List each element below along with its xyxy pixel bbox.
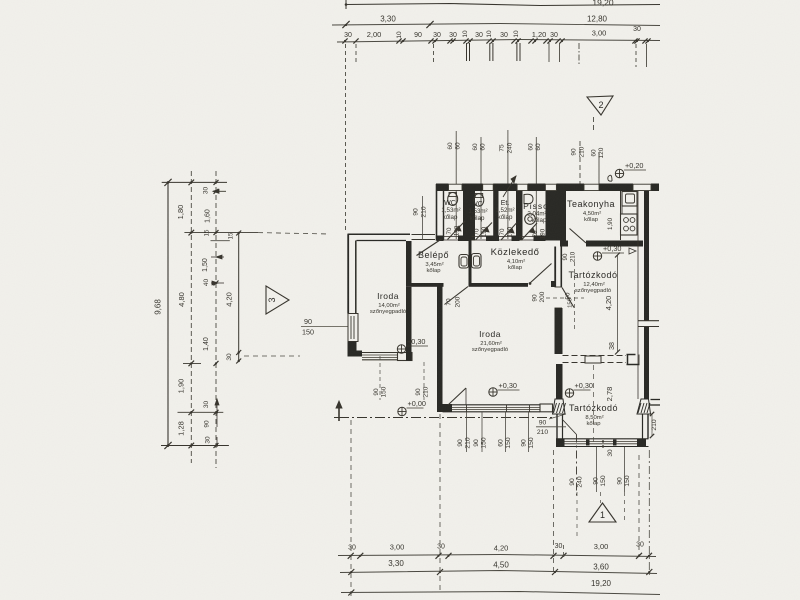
tick (551, 553, 557, 559)
east wall inner face line (637, 191, 639, 399)
elevation marker +0,30 Iroda-left (397, 345, 405, 353)
south-east wall stub (651, 399, 661, 401)
bay left hatched corner (553, 399, 566, 414)
section line 1 horizontal dash-dot (334, 417, 339, 419)
dashed center line T-lower (593, 365, 595, 443)
left dim rail D (238, 233, 240, 361)
bottom rail 2 (340, 571, 657, 574)
tick (646, 569, 652, 575)
door Kozlekedo leaf (530, 264, 552, 284)
wall Et-Pisso (516, 191, 523, 241)
dim 4,20 Tartozkodo vertical (617, 255, 619, 352)
tick (426, 21, 433, 28)
section line 2 upper dash-dot (578, 43, 580, 65)
left block dashes to plan bottom (244, 355, 300, 357)
corridor south wall segment B (469, 283, 529, 287)
tick (189, 410, 195, 416)
tick (214, 410, 219, 415)
bottom tick rail (338, 555, 656, 557)
window center line (480, 137, 482, 239)
door Belepo to big Iroda leaf (445, 287, 469, 305)
tick (214, 281, 219, 286)
tick (450, 38, 455, 43)
kitchen stove (621, 214, 638, 235)
big Iroda south band ticks (466, 405, 468, 412)
window center line (455, 131, 457, 239)
WC1 toilet (448, 193, 458, 206)
tick (463, 38, 468, 43)
tick (646, 553, 652, 559)
entrance door center line (422, 196, 424, 240)
tick (189, 361, 195, 367)
opening band between Tartozkodo rooms dashed (563, 355, 627, 357)
big Iroda west wall (437, 283, 443, 412)
tick (342, 38, 347, 43)
window center line (535, 137, 537, 239)
tick (632, 38, 637, 43)
entrance threshold lines (412, 234, 436, 236)
window center lines below bay (596, 447, 598, 492)
Iroda-left south wall piece (348, 351, 363, 357)
tick (528, 38, 533, 43)
extension double line b (489, 43, 491, 61)
elevation marker +0,20 Teakonyha (615, 169, 623, 177)
corridor south wall segment A (406, 283, 444, 287)
Iroda-left east wall (406, 287, 412, 361)
section line 2 lower dashes (593, 117, 595, 133)
Iroda-left roller box (398, 353, 413, 361)
elevation marker +0,00 outside (398, 407, 406, 415)
washbasin Belepo (459, 255, 469, 269)
bay right wall (642, 414, 644, 439)
kitchen sink unit (622, 192, 637, 207)
bottom rail 19,20 (341, 592, 660, 595)
tick (486, 38, 491, 43)
bottom extension dashed lines (350, 420, 352, 598)
extension double line c (516, 43, 518, 61)
opening band center rect (585, 356, 601, 363)
bay window band (556, 438, 649, 440)
tick (559, 38, 564, 43)
tick (189, 230, 195, 236)
left block dashes to plan top (258, 233, 330, 234)
tick (189, 180, 195, 186)
big Iroda roller box (540, 404, 553, 412)
tick (214, 443, 219, 448)
dim leader to bay wall (549, 414, 566, 419)
wall WC2-Et (493, 191, 498, 241)
tick (515, 38, 520, 43)
tick (428, 38, 433, 43)
big Iroda south corner block (441, 404, 452, 412)
big Iroda balcony door swing (448, 388, 466, 405)
Iroda-left west window (348, 314, 358, 342)
left block arrow verticals (216, 399, 218, 412)
WC door thresholds (444, 236, 459, 238)
east wall lower (644, 327, 649, 399)
tick (642, 38, 647, 43)
extension line dashed left (345, 44, 347, 232)
left block extension y232 (184, 232, 258, 234)
extension line dashed entrance (433, 44, 435, 62)
dim 1,98 marks near stub (615, 350, 620, 355)
left block extension top (162, 181, 227, 183)
left block extension y412 (178, 411, 224, 413)
west wall of WC1 (436, 184, 438, 241)
Belepo-Kozlekedo wall (469, 241, 472, 284)
north wall band (436, 184, 449, 192)
tick (447, 38, 452, 43)
tick (353, 38, 358, 43)
Iroda-left top wall inner (357, 240, 407, 242)
tick (214, 361, 219, 366)
elevation marker +0,30 Tartozkodo upper (593, 252, 601, 260)
tick (552, 569, 558, 575)
tick (357, 553, 363, 559)
left dim rail overall (167, 182, 169, 447)
section line 1 start mark (338, 403, 340, 421)
tick (214, 189, 219, 194)
Belepo west wall (406, 241, 412, 287)
tick (532, 38, 537, 43)
left block extension y363 (183, 362, 201, 364)
bay window mullions (586, 440, 590, 446)
dim rail 3,30 / 12,80 (332, 24, 660, 26)
left block extension y240 short (211, 240, 230, 242)
Iroda-left south window band (362, 352, 398, 354)
washbasin Kozlekedo (472, 254, 482, 269)
Pisso floor drain circle (525, 214, 536, 225)
entrance door leaf (417, 239, 442, 256)
left block extension bottom (161, 445, 229, 447)
left block arrows 1,50-40 (211, 256, 224, 258)
tick (436, 553, 442, 559)
window center dashed in Iroda-left (379, 356, 381, 400)
window center lines below big Iroda (466, 412, 468, 452)
door Tartozkodo leaf (562, 288, 574, 308)
extension line d (548, 43, 550, 62)
door Tartozkodo center dashes (574, 262, 576, 330)
Tartozkodo west wall lower poche (555, 308, 563, 354)
tick (561, 553, 567, 559)
bay right hatched corner (637, 399, 651, 414)
kitchen middle shelf (622, 206, 637, 214)
tick (636, 553, 642, 559)
tick (236, 231, 241, 236)
tick (467, 38, 472, 43)
WC2 toilet (474, 194, 484, 207)
Iroda-left west wall upper (347, 234, 349, 313)
left block arrow 30 top (213, 190, 226, 192)
elevation marker +0,30 big Iroda (489, 388, 497, 396)
section/door center dashed line x580 (579, 141, 581, 186)
extension double line a (466, 43, 468, 61)
tick (645, 38, 650, 43)
tick (547, 38, 552, 43)
tick (446, 553, 452, 559)
Iroda-left west wall lower poche (348, 342, 357, 357)
left dim rail B dashed (190, 171, 192, 463)
dim tick rail top (337, 40, 660, 43)
tick (543, 38, 548, 43)
Tartozkodo west wall door jambs (555, 286, 563, 288)
Et room vent arrow (503, 176, 516, 197)
Teakonyha south wall west piece (560, 241, 568, 247)
wall stub 38 piece (627, 354, 636, 356)
tick (342, 21, 349, 28)
section marker triangle 1 (589, 503, 616, 522)
Teakonyha south wall east piece (586, 241, 643, 247)
section line 1 vertical dashes (576, 435, 578, 498)
Iroda-left top wall outer (348, 233, 411, 235)
left dim rail C dashed (215, 171, 217, 468)
tick (214, 230, 219, 235)
dim rail 19,20 top (346, 4, 660, 6)
corridor south wall jamb piece (551, 281, 555, 287)
Teakonyha west wall (560, 184, 566, 247)
kitchen counter edge (620, 191, 622, 240)
tick (555, 38, 560, 43)
tick (214, 180, 219, 185)
WC2 door leaf (476, 223, 493, 241)
south wall of WC row with door openings (437, 236, 444, 242)
Pisso urinal (524, 194, 533, 204)
east wall upper (644, 191, 649, 321)
tick (490, 38, 495, 43)
WC1 door leaf (448, 221, 466, 240)
tick (634, 38, 639, 43)
tick (400, 38, 405, 43)
section marker triangle 2 (587, 96, 613, 115)
extension line short (355, 44, 357, 62)
extension lines right pair (635, 44, 637, 67)
Et door leaf (501, 223, 517, 240)
window center line (507, 130, 509, 239)
north wall windows (449, 184, 463, 190)
tick (511, 38, 516, 43)
tick (189, 443, 195, 449)
elevation marker +0,30 Tartozkodo lower (565, 389, 573, 397)
Pisso door leaf (522, 223, 538, 240)
center line x599 (598, 152, 600, 186)
east wall window lines (638, 320, 659, 322)
tick (236, 359, 241, 364)
wall Pisso-Teakonyha (546, 191, 561, 241)
extension line e (559, 43, 561, 62)
T-lower west wall (556, 364, 563, 399)
tick (348, 553, 354, 559)
tick (432, 38, 437, 43)
Teakonyha door leaf (570, 229, 587, 244)
tick (396, 38, 401, 43)
Tartozkodo west wall upper (554, 247, 556, 288)
section marker triangle 3 (266, 286, 289, 314)
tick (437, 569, 443, 575)
bay right wall dim ticks (650, 412, 654, 416)
bay window end posts (556, 439, 565, 447)
section line 1 diagonal (562, 419, 577, 435)
tick (236, 350, 241, 355)
big Iroda south window band (443, 404, 541, 406)
tick (348, 569, 354, 575)
wall WC1-WC2 (463, 191, 475, 241)
window center dash below bay (576, 492, 578, 540)
bay left wall (556, 414, 558, 439)
